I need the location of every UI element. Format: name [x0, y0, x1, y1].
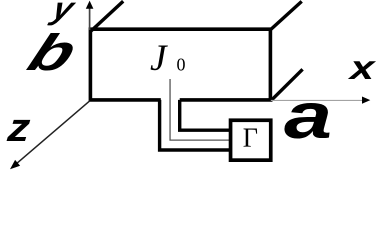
label Gamma	[243, 122, 258, 153]
x-axis arrowhead	[362, 97, 370, 104]
y-axis arrowhead	[86, 1, 94, 9]
svg-text:y: y	[46, 0, 80, 26]
label J	[150, 38, 168, 79]
svg-text:z: z	[5, 105, 32, 150]
svg-text:Γ: Γ	[243, 122, 258, 153]
label z	[5, 105, 32, 150]
z-axis line	[16, 101, 90, 164]
label y	[46, 0, 80, 26]
svg-text:x: x	[347, 50, 376, 87]
y-axis line	[89, 8, 91, 30]
probe feed wire from J0 (thin L)	[170, 79, 231, 140]
z-axis arrowhead	[10, 160, 20, 169]
x-axis line	[271, 99, 363, 101]
svg-text:J: J	[150, 38, 168, 79]
3D edge top-left	[91, 1, 123, 31]
svg-text:b: b	[20, 25, 85, 82]
label b	[20, 25, 85, 82]
label a	[284, 80, 332, 152]
svg-text:0: 0	[177, 55, 186, 75]
3D edge bottom-right	[271, 69, 302, 100]
3D edge top-right	[271, 1, 302, 29]
label 0 subscript	[177, 55, 186, 75]
coax inner conductor right (thick L)	[180, 100, 231, 130]
label x	[347, 50, 376, 87]
waveguide front face outline	[90, 29, 270, 100]
svg-text:a: a	[284, 80, 332, 152]
coax outer conductor left (thick L)	[160, 100, 231, 150]
load box Gamma	[231, 120, 271, 160]
